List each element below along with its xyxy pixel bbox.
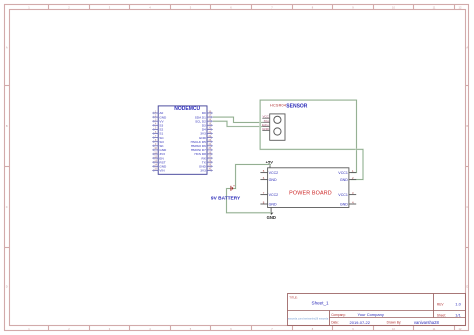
svg-text:A: A: [6, 46, 8, 50]
svg-text:VCC1: VCC1: [338, 171, 348, 175]
svg-text:A: A: [466, 46, 468, 50]
svg-text:GND: GND: [340, 202, 348, 206]
svg-text:C: C: [466, 205, 468, 209]
svg-text:easyeda.com/vanivarsha28 easy: easyeda.com/vanivarsha28 easyeda: [288, 317, 329, 320]
svg-text:VCC1: VCC1: [338, 193, 348, 197]
svg-text:VCC2: VCC2: [269, 193, 279, 197]
svg-text:3V3: 3V3: [200, 169, 206, 173]
svg-text:D: D: [6, 285, 8, 289]
svg-text:1.0: 1.0: [455, 301, 461, 306]
svg-text:GND: GND: [267, 215, 276, 220]
svg-text:SENSOR: SENSOR: [286, 104, 308, 110]
svg-text:Drawn By:: Drawn By:: [387, 321, 402, 325]
svg-text:+: +: [233, 184, 235, 188]
svg-text:VIN: VIN: [159, 169, 164, 173]
svg-text:B: B: [6, 124, 8, 128]
svg-text:NODEMCU: NODEMCU: [174, 106, 200, 112]
svg-text:D: D: [466, 285, 468, 289]
svg-text:Your Company: Your Company: [358, 312, 384, 317]
svg-text:Sheet:: Sheet:: [437, 313, 446, 317]
svg-text:GND: GND: [269, 202, 277, 206]
svg-text:POWER BOARD: POWER BOARD: [289, 190, 332, 196]
svg-text:2019-07-22: 2019-07-22: [350, 320, 371, 325]
svg-text:Date:: Date:: [331, 321, 339, 325]
svg-text:TITLE:: TITLE:: [289, 295, 298, 299]
svg-text:C: C: [6, 205, 8, 209]
svg-text:HCSR04: HCSR04: [270, 104, 286, 108]
svg-text:REV: REV: [437, 302, 444, 306]
svg-text:VCC2: VCC2: [269, 171, 279, 175]
svg-text:Company:: Company:: [331, 313, 346, 317]
svg-text:GND: GND: [340, 178, 348, 182]
svg-text:GND: GND: [269, 178, 277, 182]
svg-text:vanivarsha28: vanivarsha28: [414, 320, 440, 325]
svg-text:Sheet_1: Sheet_1: [312, 300, 330, 305]
svg-text:1/1: 1/1: [455, 312, 461, 317]
svg-text:GND: GND: [262, 127, 270, 131]
svg-text:B: B: [466, 124, 468, 128]
svg-text:9V BATTERY: 9V BATTERY: [211, 195, 241, 201]
